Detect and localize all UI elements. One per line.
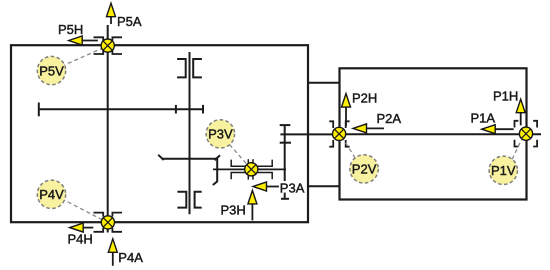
- bearing at P5: [94, 37, 123, 54]
- label P4A: [118, 250, 143, 265]
- svg-text:P4A: P4A: [118, 250, 143, 265]
- dashed leader P4V to P4: [62, 199, 102, 220]
- arrow P1H: [516, 99, 525, 125]
- shaft S8 rotor shaft P2-P1: [340, 133, 542, 135]
- svg-text:P5H: P5H: [58, 22, 83, 37]
- arrow P3H: [248, 190, 257, 220]
- node P3V: [206, 120, 234, 148]
- svg-text:P1A: P1A: [471, 111, 496, 126]
- dashed leader P5V to P5: [62, 49, 102, 67]
- shaft S6 vertical output stub: [280, 125, 291, 199]
- svg-text:P4V: P4V: [39, 187, 64, 202]
- label P4H: [68, 232, 93, 247]
- label P5H: [58, 22, 83, 37]
- svg-text:P2H: P2H: [352, 91, 377, 106]
- wire: lower connector between housings: [308, 185, 340, 187]
- shaft S7 horizontal into motor: [280, 133, 339, 135]
- measurement point P5: [101, 39, 114, 52]
- motor housing: [340, 68, 527, 199]
- measurement point P1: [519, 127, 532, 140]
- svg-text:P4H: P4H: [68, 232, 93, 247]
- arrow P5A: [107, 3, 116, 24]
- arrow P3A: [253, 182, 279, 191]
- arrow P5H: [69, 36, 98, 45]
- label P1A: [471, 111, 496, 126]
- gearbox housing: [11, 45, 308, 222]
- label P1H: [493, 89, 518, 104]
- svg-text:P2A: P2A: [377, 111, 402, 126]
- label P2A: [377, 111, 402, 126]
- measurement point P4: [101, 216, 114, 229]
- label P2H: [352, 91, 377, 106]
- arrow P2A: [353, 124, 384, 133]
- svg-text:P1H: P1H: [493, 89, 518, 104]
- svg-text:P3H: P3H: [221, 203, 246, 218]
- label P5A: [117, 14, 142, 29]
- dashed leader P3V to P3: [230, 145, 247, 164]
- bearing at P3: [231, 159, 272, 179]
- shaft S4 lay shaft with gear: [158, 155, 220, 185]
- shaft S1 vertical (P5-P4 shaft): [107, 25, 109, 233]
- shaft S2 vertical (coupling shaft): [189, 52, 191, 214]
- svg-text:P5V: P5V: [39, 63, 64, 78]
- svg-text:P3A: P3A: [280, 181, 305, 196]
- node P5V: [37, 56, 65, 84]
- node P2V: [350, 155, 378, 183]
- dashed leader P2V to P2: [343, 139, 355, 158]
- label P3H: [221, 203, 246, 218]
- arrow P2H: [342, 94, 351, 126]
- svg-text:P3V: P3V: [208, 127, 233, 142]
- measurement point P2: [333, 127, 346, 140]
- arrow P4A: [108, 239, 117, 266]
- shaft S3 horizontal gear shaft: [39, 103, 203, 117]
- svg-text:P1V: P1V: [491, 163, 516, 178]
- node P1V: [489, 156, 517, 184]
- wire: upper connector between housings: [308, 82, 340, 84]
- bearing at P1: [515, 121, 538, 147]
- coupling lower on shaft S2: [177, 192, 201, 208]
- coupling upper on shaft S2: [177, 59, 202, 77]
- svg-text:P2V: P2V: [352, 162, 377, 177]
- measurement point P3: [245, 163, 258, 176]
- arrow P4H: [70, 223, 94, 232]
- label P3A: [280, 181, 305, 196]
- arrow P1A: [482, 125, 514, 134]
- bearing at P4: [94, 213, 123, 232]
- dashed leader P1V to P1: [512, 139, 522, 159]
- bearing at P2: [329, 121, 349, 146]
- shaft S5 horizontal P3 shaft: [213, 168, 286, 170]
- node P4V: [37, 180, 65, 208]
- svg-text:P5A: P5A: [117, 14, 142, 29]
